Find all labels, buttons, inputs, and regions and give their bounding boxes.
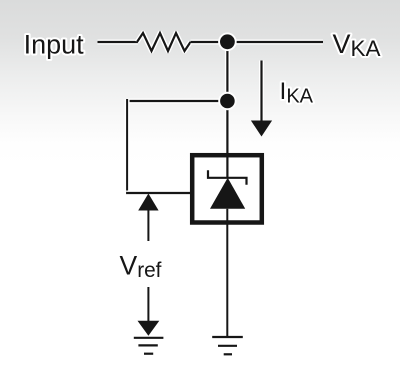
zener cathode bar (208, 170, 247, 184)
TL431 shunt regulator body box U1 (192, 155, 262, 222)
node A cathode junction (218, 33, 237, 52)
diode triangle anode (210, 178, 245, 209)
wire feedback horizontal from node B (127, 99, 227, 104)
wire feedback vertical down (125, 99, 130, 194)
Vref arrowhead down (138, 321, 160, 336)
wire resistor to VKA (191, 40, 324, 45)
Vref arrowhead up (138, 194, 158, 211)
wire cathode vertical (225, 42, 230, 178)
resistor R1 (137, 33, 191, 51)
svg-text:Vref: Vref (120, 250, 162, 282)
current arrow IKA (251, 61, 272, 137)
svg-text:VKA: VKA (333, 29, 381, 61)
ground symbol Vref (134, 338, 164, 354)
Vref arrow shaft upper (147, 209, 149, 241)
svg-text:Input: Input (24, 30, 85, 60)
node B feedback junction (218, 92, 236, 110)
wire input to resistor (98, 40, 139, 45)
Vref arrow shaft lower (147, 287, 149, 322)
wire REF into box (126, 191, 191, 196)
ground symbol anode (212, 337, 243, 354)
svg-text:IKA: IKA (280, 78, 314, 108)
wire anode to ground (225, 209, 230, 337)
